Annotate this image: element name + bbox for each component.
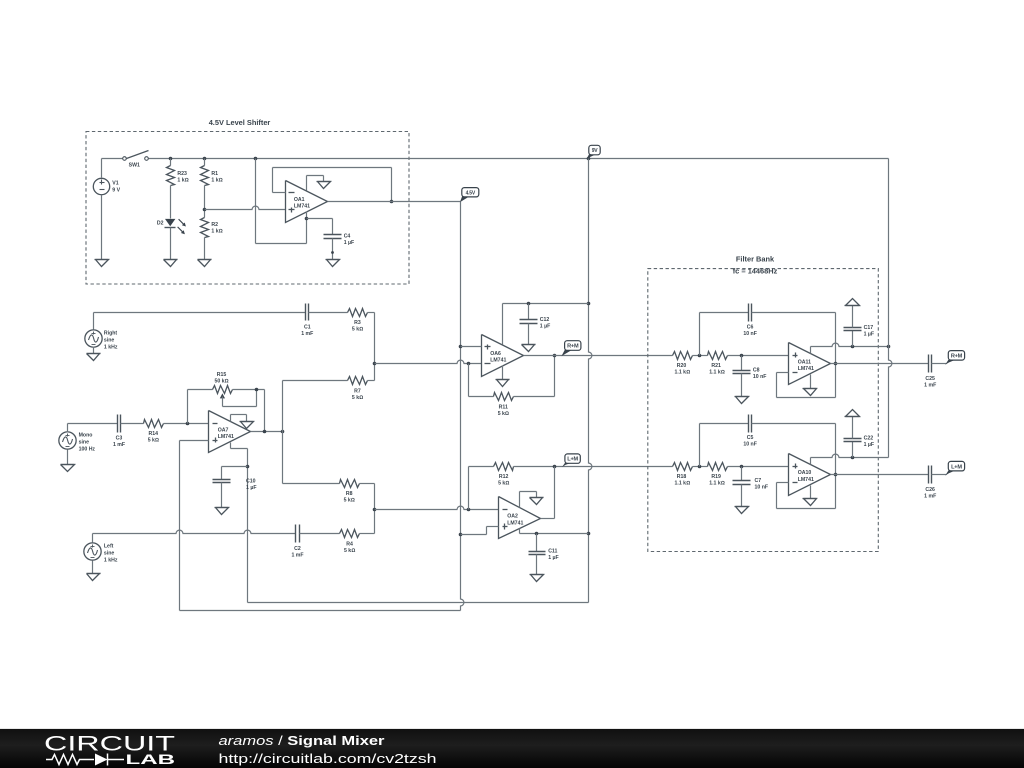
svg-text:1 µF: 1 µF bbox=[864, 332, 874, 338]
svg-text:1 µF: 1 µF bbox=[344, 240, 354, 246]
supply arrow above C22 bbox=[846, 410, 860, 417]
capacitor C11 1uF bbox=[529, 534, 559, 575]
svg-text:C8: C8 bbox=[753, 367, 760, 373]
svg-text:L+M: L+M bbox=[951, 464, 962, 470]
svg-text:aramos / Signal Mixer: aramos / Signal Mixer bbox=[219, 733, 385, 748]
svg-text:OA7: OA7 bbox=[218, 427, 229, 433]
wire summing vertical R7/R8 bbox=[282, 381, 284, 484]
wire OA11 output bbox=[831, 363, 929, 365]
node R+M output flag bbox=[945, 359, 957, 365]
wire OA6 + input to 4.5V rail bbox=[461, 346, 482, 348]
svg-text:C17: C17 bbox=[864, 325, 874, 331]
resistor R20 1.1k bbox=[673, 352, 693, 376]
svg-text:C4: C4 bbox=[344, 234, 351, 240]
op-amp OA1 LM741 bbox=[286, 181, 328, 223]
svg-text:1 kΩ: 1 kΩ bbox=[211, 229, 222, 235]
svg-text:LM741: LM741 bbox=[218, 434, 234, 440]
svg-text:C1: C1 bbox=[304, 324, 311, 330]
capacitor C12 1uF bbox=[520, 304, 551, 345]
svg-text:http://circuitlab.com/cv2tzsh: http://circuitlab.com/cv2tzsh bbox=[219, 751, 437, 766]
wire to OA6 - input bbox=[375, 363, 458, 365]
svg-text:sine: sine bbox=[104, 337, 114, 343]
svg-text:C22: C22 bbox=[864, 436, 874, 442]
wire 9V right rail bbox=[888, 159, 890, 361]
svg-text:C12: C12 bbox=[540, 317, 550, 323]
svg-text:LM741: LM741 bbox=[490, 358, 506, 364]
node 4.5V flag bbox=[460, 196, 470, 202]
wire C1 to R3 bbox=[309, 312, 348, 314]
ground below C11 bbox=[530, 574, 544, 576]
ground at OA6 V- bbox=[496, 379, 510, 381]
svg-text:R20: R20 bbox=[677, 363, 687, 369]
svg-text:LM741: LM741 bbox=[798, 366, 814, 372]
wire OA6 V+ supply bbox=[502, 304, 504, 345]
ground at OA7 V+ bbox=[240, 421, 254, 423]
svg-text:R2: R2 bbox=[211, 222, 218, 228]
op-amp OA7 LM741 bbox=[209, 411, 251, 453]
svg-text:R7: R7 bbox=[354, 389, 361, 395]
svg-text:50 kΩ: 50 kΩ bbox=[214, 378, 228, 384]
wire OA1 V- pin loop to 9V rail bbox=[255, 159, 257, 244]
svg-text:1 kΩ: 1 kΩ bbox=[177, 177, 188, 183]
wire OA10 output bbox=[831, 474, 929, 476]
svg-text:Left: Left bbox=[104, 543, 114, 549]
ground at OA1 V+ bbox=[317, 181, 331, 183]
svg-text:LM741: LM741 bbox=[294, 204, 310, 210]
op-amp OA6 LM741 bbox=[482, 335, 524, 377]
resistor R7 5k bbox=[283, 377, 375, 402]
ground below C12 bbox=[522, 344, 536, 346]
svg-text:SW1: SW1 bbox=[129, 162, 140, 168]
svg-text:OA6: OA6 bbox=[490, 351, 501, 357]
voltage source V1 9V bbox=[93, 159, 120, 260]
wire OA7 output bbox=[251, 431, 283, 433]
svg-text:R1: R1 bbox=[211, 171, 218, 177]
capacitor C26 1mF bbox=[924, 466, 936, 500]
wire 9V top rail bbox=[102, 158, 124, 160]
resistor R14 5k bbox=[144, 420, 164, 444]
wire OA1 output to 4.5V rail bbox=[328, 201, 461, 203]
capacitor C3 1mF bbox=[113, 415, 125, 449]
ground below Left source bbox=[87, 573, 101, 575]
wire OA2 V+ pin to ground bbox=[519, 492, 521, 508]
resistor R12 5k feedback bbox=[494, 463, 514, 487]
capacitor C2 1mF bbox=[291, 525, 303, 559]
wire OA2 + input jog to 4.5V rail bbox=[487, 526, 499, 528]
svg-text:10 nF: 10 nF bbox=[743, 441, 757, 447]
svg-text:5 kΩ: 5 kΩ bbox=[498, 480, 509, 486]
potentiometer R15 50k bbox=[188, 372, 265, 432]
wire R8/R4 node to OA2 - input bbox=[375, 509, 458, 511]
svg-text:C5: C5 bbox=[747, 435, 754, 441]
svg-text:R4: R4 bbox=[346, 542, 353, 548]
svg-text:R+M: R+M bbox=[567, 344, 579, 350]
resistor R4 5k bbox=[340, 530, 375, 555]
node L+M flag bbox=[562, 462, 573, 467]
wire OA2 V- supply to rail bbox=[519, 529, 521, 534]
svg-text:1.1 kΩ: 1.1 kΩ bbox=[675, 480, 691, 486]
LED D2 bbox=[157, 219, 186, 260]
svg-text:C6: C6 bbox=[747, 324, 754, 330]
svg-text:R12: R12 bbox=[499, 474, 509, 480]
svg-text:10 nF: 10 nF bbox=[753, 374, 767, 380]
ground below D2 bbox=[164, 259, 178, 261]
svg-text:C7: C7 bbox=[755, 478, 762, 484]
wire OA6 output R+M bbox=[524, 355, 673, 357]
wire 9V vertical rail bbox=[588, 159, 590, 353]
svg-text:5 kΩ: 5 kΩ bbox=[344, 548, 355, 554]
capacitor C1 1mF bbox=[301, 304, 313, 337]
svg-text:C2: C2 bbox=[294, 546, 301, 552]
node 9V flag bbox=[586, 154, 597, 160]
wire OA7 + input bias rail bbox=[180, 440, 209, 442]
wire summing vertical R3/R7 bbox=[374, 313, 376, 381]
resistor R11 5k feedback bbox=[469, 356, 555, 418]
svg-text:fc = 14468Hz: fc = 14468Hz bbox=[733, 267, 778, 276]
capacitor C25 1mF bbox=[924, 355, 936, 389]
resistor R21 1.1k bbox=[708, 352, 728, 376]
svg-text:5 kΩ: 5 kΩ bbox=[344, 498, 355, 504]
resistor R23 1k bbox=[167, 159, 189, 219]
resistor R8 5k bbox=[283, 480, 375, 504]
resistor R18 1.1k bbox=[673, 463, 693, 487]
resistor R1 1k bbox=[201, 159, 223, 210]
svg-text:LM741: LM741 bbox=[798, 477, 814, 483]
wire 4.5V vertical rail bbox=[460, 202, 462, 600]
svg-text:1.1 kΩ: 1.1 kΩ bbox=[709, 480, 725, 486]
svg-text:1 kHz: 1 kHz bbox=[104, 557, 118, 563]
wire L+M line bbox=[469, 466, 494, 468]
svg-text:LM741: LM741 bbox=[507, 520, 523, 526]
capacitor C22 1uF bbox=[844, 417, 875, 458]
op-amp OA10 LM741 bbox=[789, 454, 831, 496]
svg-text:R19: R19 bbox=[711, 474, 721, 480]
resistor R19 1.1k bbox=[708, 463, 728, 487]
svg-text:1 kHz: 1 kHz bbox=[104, 344, 118, 350]
svg-text:1 mF: 1 mF bbox=[924, 493, 936, 499]
svg-text:L+M: L+M bbox=[567, 457, 578, 463]
svg-text:5 kΩ: 5 kΩ bbox=[148, 438, 159, 444]
svg-text:C25: C25 bbox=[925, 376, 935, 382]
ground below C7 bbox=[735, 506, 749, 508]
svg-text:9 V: 9 V bbox=[112, 187, 120, 193]
wire OA11 V- to ground bbox=[810, 375, 812, 389]
wire OA10 V+ supply bbox=[810, 458, 812, 465]
svg-text:5 kΩ: 5 kΩ bbox=[352, 395, 363, 401]
svg-text:C3: C3 bbox=[116, 436, 123, 442]
ground below C10 bbox=[215, 507, 229, 509]
wire OA10 - feedback under bbox=[777, 482, 789, 484]
wire Mono line bbox=[68, 423, 118, 425]
wire Left line bbox=[93, 533, 177, 535]
capacitor C8 10nF bbox=[733, 356, 767, 397]
svg-text:R3: R3 bbox=[354, 320, 361, 326]
wire OA10 V- to ground bbox=[810, 486, 812, 499]
ground below Right source bbox=[87, 353, 101, 355]
svg-text:1.1 kΩ: 1.1 kΩ bbox=[675, 370, 691, 376]
wire OA7 V+ pin to ground bbox=[230, 415, 232, 422]
svg-text:5 kΩ: 5 kΩ bbox=[498, 411, 509, 417]
capacitor C10 1uF bbox=[213, 467, 257, 508]
4.5V Level Shifter dashed enclosure bbox=[86, 132, 409, 285]
node L+M output flag bbox=[945, 470, 957, 476]
svg-text:Right: Right bbox=[104, 330, 118, 336]
wire OA11 - feedback under bbox=[777, 372, 789, 374]
op-amp OA2 LM741 bbox=[499, 497, 541, 539]
svg-text:D2: D2 bbox=[157, 221, 164, 227]
wire OA2 output up to L+M bbox=[541, 518, 555, 520]
svg-text:1 kΩ: 1 kΩ bbox=[211, 177, 222, 183]
wire OA11 V+ supply bbox=[810, 347, 812, 354]
ground at OA2 V+ bbox=[530, 497, 544, 499]
svg-text:1 mF: 1 mF bbox=[924, 383, 936, 389]
source Right sine 1kHz bbox=[85, 313, 118, 354]
svg-text:5 kΩ: 5 kΩ bbox=[352, 327, 363, 333]
capacitor C4 1uF bbox=[307, 219, 355, 260]
svg-text:1 µF: 1 µF bbox=[548, 555, 558, 561]
svg-text:C26: C26 bbox=[925, 487, 935, 493]
node R+M flag bbox=[561, 349, 573, 356]
resistor R2 1k bbox=[201, 210, 223, 260]
supply arrow above C17 bbox=[846, 299, 860, 306]
wire OA1 feedback loop bbox=[391, 168, 393, 202]
svg-text:C10: C10 bbox=[246, 479, 256, 485]
svg-text:10 nF: 10 nF bbox=[755, 485, 769, 491]
source Left sine 1kHz bbox=[84, 534, 118, 574]
svg-text:LAB: LAB bbox=[126, 752, 176, 767]
switch SW1 bbox=[123, 151, 149, 169]
svg-text:100 Hz: 100 Hz bbox=[79, 447, 96, 453]
wire OA1 V+ pin to ground bbox=[306, 176, 308, 191]
svg-text:1 µF: 1 µF bbox=[864, 442, 874, 448]
svg-text:R8: R8 bbox=[346, 491, 353, 497]
svg-text:9V: 9V bbox=[592, 148, 599, 154]
svg-text:R18: R18 bbox=[677, 474, 687, 480]
wire R14 to OA7 - input bbox=[164, 423, 209, 425]
svg-text:4.5V Level Shifter: 4.5V Level Shifter bbox=[209, 118, 271, 127]
ground below C4 bbox=[326, 259, 340, 261]
svg-text:Filter Bank: Filter Bank bbox=[736, 255, 775, 264]
node R1-R2 junction to OA1 + input bbox=[203, 208, 207, 212]
svg-text:OA10: OA10 bbox=[798, 470, 812, 476]
svg-text:1 mF: 1 mF bbox=[301, 331, 313, 337]
capacitor C7 10nF bbox=[733, 467, 769, 507]
ground below Mono source bbox=[61, 464, 75, 466]
op-amp OA11 LM741 bbox=[789, 343, 831, 385]
svg-text:sine: sine bbox=[104, 550, 114, 556]
capacitor C17 1uF bbox=[844, 306, 875, 347]
svg-text:R+M: R+M bbox=[951, 353, 963, 359]
svg-text:OA1: OA1 bbox=[294, 197, 305, 203]
svg-text:OA2: OA2 bbox=[507, 514, 518, 520]
wire summing vertical R8/R4 bbox=[374, 484, 376, 534]
svg-text:1 µF: 1 µF bbox=[246, 485, 256, 491]
svg-text:R11: R11 bbox=[499, 405, 508, 411]
svg-text:1 µF: 1 µF bbox=[540, 324, 550, 330]
ground below R2 bbox=[198, 259, 212, 261]
wire R3 to summing vertical bbox=[368, 312, 375, 314]
wire Right line bbox=[94, 312, 306, 314]
svg-text:1 mF: 1 mF bbox=[291, 553, 303, 559]
ground below C8 bbox=[735, 396, 749, 398]
ground below V1 bbox=[95, 259, 109, 261]
wire W1 bottom supply return bbox=[248, 602, 589, 604]
svg-text:R15: R15 bbox=[217, 372, 227, 378]
svg-text:1 mF: 1 mF bbox=[113, 442, 125, 448]
capacitor C5 10nF feedback bbox=[700, 415, 836, 475]
wire OA7 V- chain bbox=[230, 443, 232, 449]
ground at OA10 V- bbox=[803, 498, 817, 500]
svg-text:4.5V: 4.5V bbox=[466, 190, 476, 196]
resistor R3 5k bbox=[348, 309, 368, 333]
ground at OA11 V- bbox=[803, 388, 817, 390]
svg-text:1.1 kΩ: 1.1 kΩ bbox=[709, 370, 725, 376]
svg-text:R21: R21 bbox=[711, 363, 721, 369]
svg-text:R14: R14 bbox=[149, 431, 159, 437]
wire OA6 V- to ground bbox=[502, 366, 504, 380]
svg-text:R23: R23 bbox=[177, 171, 187, 177]
svg-text:Mono: Mono bbox=[79, 433, 93, 439]
svg-text:10 nF: 10 nF bbox=[743, 331, 757, 337]
Filter Bank dashed enclosure bbox=[648, 269, 879, 552]
source Mono sine 100Hz bbox=[59, 424, 96, 465]
svg-text:sine: sine bbox=[79, 440, 89, 446]
capacitor C6 10nF feedback bbox=[700, 304, 836, 364]
svg-text:OA11: OA11 bbox=[798, 359, 811, 365]
svg-text:C11: C11 bbox=[548, 548, 557, 554]
svg-text:V1: V1 bbox=[112, 180, 118, 186]
